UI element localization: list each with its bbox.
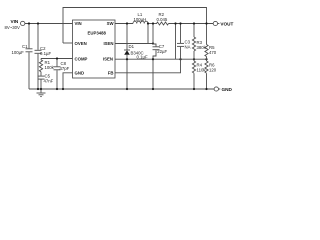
resistor R1 bbox=[39, 59, 54, 76]
svg-text:100µF: 100µF bbox=[12, 50, 25, 55]
svg-text:COMP: COMP bbox=[75, 56, 88, 61]
wire column x175.5 bbox=[175, 24, 177, 60]
terminal VIN bbox=[5, 19, 25, 30]
terminal VOUT bbox=[213, 21, 233, 26]
svg-text:0.1µF: 0.1µF bbox=[137, 54, 148, 59]
wire R2 to VOUT bbox=[169, 23, 214, 25]
wire L1 to R2 bbox=[148, 23, 157, 25]
capacitor C7 bbox=[153, 24, 168, 90]
diode D1 bbox=[124, 24, 148, 90]
terminal GND bbox=[214, 87, 232, 92]
svg-text:22µF: 22µF bbox=[157, 49, 167, 54]
wire ISEN2/FB node line bbox=[115, 58, 207, 60]
node dots SW rail bbox=[126, 22, 128, 24]
op-amp U1 : IC EUP3488 box bbox=[73, 20, 116, 78]
svg-text:100k: 100k bbox=[45, 65, 55, 70]
svg-text:OVEN: OVEN bbox=[75, 41, 87, 46]
wire OVEN pin bbox=[63, 42, 73, 44]
node dots ground rail right bbox=[126, 88, 128, 90]
capacitor C3 bbox=[177, 24, 191, 60]
svg-text:470: 470 bbox=[209, 50, 217, 55]
resistor R5 bbox=[205, 24, 217, 60]
ground rail bbox=[29, 88, 214, 90]
capacitor C5 bbox=[38, 74, 54, 89]
wire ISEN riser to SW rail bbox=[147, 24, 149, 44]
capacitor C2 bbox=[35, 24, 52, 90]
resistor R3 bbox=[192, 24, 206, 60]
node dots on node line bbox=[126, 58, 128, 60]
svg-text:NA: NA bbox=[185, 45, 191, 50]
svg-text:100µH: 100µH bbox=[134, 17, 147, 22]
svg-text:C1: C1 bbox=[22, 44, 28, 49]
inductor L1 bbox=[133, 12, 148, 24]
resistor R2 bbox=[157, 12, 169, 25]
capacitor C1 bbox=[12, 24, 33, 90]
wire ISEN pin bbox=[115, 43, 153, 45]
svg-text:EUP3488: EUP3488 bbox=[88, 30, 107, 35]
node ground junctions left bbox=[37, 88, 39, 90]
wire COMP pin bbox=[41, 58, 73, 60]
svg-text:ISEN: ISEN bbox=[103, 57, 113, 62]
svg-text:GND: GND bbox=[222, 87, 233, 92]
wire GND pin bbox=[63, 73, 73, 89]
svg-text:SW: SW bbox=[107, 21, 115, 26]
wire FB pin bbox=[115, 59, 181, 73]
svg-text:VIN: VIN bbox=[75, 21, 82, 26]
svg-text:FB: FB bbox=[108, 71, 114, 76]
svg-text:47pF: 47pF bbox=[60, 66, 70, 71]
svg-text:VIN: VIN bbox=[11, 19, 19, 24]
node ISEN/C7 junction bbox=[152, 42, 154, 44]
wire top rail (OVEN to VOUT) bbox=[63, 8, 207, 44]
svg-text:D1: D1 bbox=[129, 44, 135, 49]
node VIN junction C2 bbox=[37, 22, 39, 24]
resistor R6 bbox=[205, 59, 217, 89]
svg-text:ISEN: ISEN bbox=[103, 41, 113, 46]
svg-text:0.045: 0.045 bbox=[157, 17, 168, 22]
node VIN junction C1 bbox=[28, 22, 30, 24]
svg-text:GND: GND bbox=[75, 71, 85, 76]
svg-text:VOUT: VOUT bbox=[220, 22, 233, 27]
svg-text:8V~30V: 8V~30V bbox=[5, 25, 21, 30]
capacitor C8 bbox=[54, 59, 70, 90]
wire SW rail bbox=[115, 23, 133, 25]
svg-text:120: 120 bbox=[209, 68, 217, 73]
svg-text:47nF: 47nF bbox=[44, 79, 54, 84]
ground symbol bbox=[37, 89, 46, 97]
resistor R4 bbox=[192, 59, 206, 89]
svg-text:0.1µF: 0.1µF bbox=[40, 51, 51, 56]
node COMP junction bbox=[56, 57, 58, 59]
wire VIN rail bbox=[25, 23, 73, 25]
